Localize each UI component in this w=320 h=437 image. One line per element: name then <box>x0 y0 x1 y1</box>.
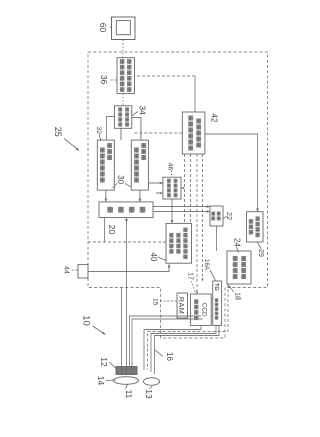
svg-text:30: 30 <box>116 175 125 184</box>
svg-text:34: 34 <box>137 105 147 115</box>
svg-text:TG: TG <box>213 283 219 291</box>
svg-text:20: 20 <box>107 225 117 235</box>
svg-text:18: 18 <box>234 292 241 300</box>
svg-text:13: 13 <box>144 389 154 399</box>
svg-text:44: 44 <box>63 266 70 274</box>
svg-text:42: 42 <box>210 114 219 123</box>
svg-text:40: 40 <box>149 253 158 262</box>
svg-text:25: 25 <box>53 127 63 137</box>
svg-text:17: 17 <box>187 272 194 280</box>
svg-text:15: 15 <box>152 298 159 306</box>
svg-text:24: 24 <box>233 238 242 247</box>
svg-text:16A: 16A <box>203 259 210 271</box>
svg-text:16: 16 <box>165 352 174 361</box>
svg-text:36: 36 <box>99 75 109 85</box>
svg-text:60: 60 <box>98 23 108 33</box>
svg-text:14: 14 <box>96 376 106 386</box>
svg-text:CCD: CCD <box>201 303 208 317</box>
svg-text:11: 11 <box>124 390 134 399</box>
svg-text:12: 12 <box>99 357 109 367</box>
svg-text:29: 29 <box>257 249 264 257</box>
svg-text:22: 22 <box>225 212 234 220</box>
svg-text:RAM: RAM <box>177 297 186 314</box>
svg-text:46: 46 <box>167 163 174 171</box>
svg-text:32: 32 <box>95 127 102 135</box>
svg-text:10: 10 <box>81 315 92 326</box>
